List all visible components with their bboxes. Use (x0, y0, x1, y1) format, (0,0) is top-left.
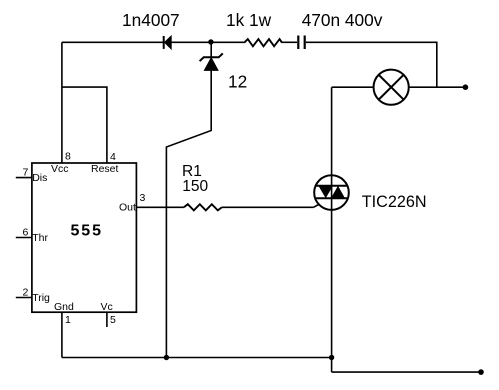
pin number 4 (110, 151, 116, 163)
label 470n 400v (302, 10, 383, 30)
pin number 8 (65, 151, 71, 163)
IC U1 555 body (32, 163, 136, 312)
wire ground rail (62, 357, 332, 359)
svg-text:Out: Out (119, 202, 136, 214)
label 12 (228, 71, 247, 91)
wire lamp right lead to AC terminal (409, 86, 466, 88)
pin label Reset (91, 163, 119, 175)
wire top rail left segment (62, 41, 244, 43)
svg-text:3: 3 (140, 192, 146, 204)
svg-text:Gnd: Gnd (54, 301, 74, 313)
pin label Trig (32, 292, 50, 304)
wire lamp left lead to triac column (332, 86, 374, 88)
pin number 5 (110, 314, 116, 326)
wire R1 to triac gate (222, 206, 314, 208)
svg-text:150: 150 (182, 178, 208, 195)
wire zener bottom lead down, diagonal and vertical to ground rail (166, 70, 211, 357)
svg-text:Thr: Thr (32, 232, 48, 244)
label 150 (182, 178, 208, 195)
svg-text:Vcc: Vcc (51, 163, 69, 175)
label R1 (182, 163, 202, 180)
wire triac main vertical (331, 87, 333, 372)
triac U2 TIC226N (314, 175, 349, 210)
node junction dot at diode/zener tap (208, 39, 213, 44)
pin 5 Vc stub (106, 312, 108, 327)
svg-text:TIC226N: TIC226N (362, 193, 427, 211)
pin 2 Trig stub (16, 297, 32, 299)
wire top rail right segment and drop to lamp line (306, 42, 437, 87)
label 1n4007 (122, 10, 180, 30)
wire triac gate (314, 205, 319, 208)
node junction dot triac column to ground rail (329, 355, 334, 360)
wire between resistor and capacitor (282, 41, 297, 43)
pin label Dis (32, 172, 47, 184)
pin label Gnd (54, 301, 74, 313)
wire zener top lead (210, 42, 212, 57)
svg-text:470n 400v: 470n 400v (302, 10, 383, 30)
pin number 6 (23, 227, 29, 239)
label 555 (71, 222, 103, 239)
wire Reset branch from Vcc line to pin 4 (62, 87, 107, 163)
svg-text:1n4007: 1n4007 (122, 10, 180, 30)
capacitor 470n 400v (298, 36, 304, 50)
terminal dot bottom right (478, 369, 484, 375)
svg-text:7: 7 (23, 167, 29, 179)
resistor R1 150 (184, 204, 222, 210)
pin 6 Thr stub (16, 237, 32, 239)
node junction dot zener column to ground rail (164, 355, 169, 360)
zener diode 12V (200, 53, 223, 70)
svg-text:Trig: Trig (32, 292, 50, 304)
svg-text:2: 2 (23, 287, 29, 299)
pin label Thr (32, 232, 48, 244)
label 1k 1w (226, 10, 272, 30)
pin number 3 (140, 192, 146, 204)
resistor 1k 1w (244, 39, 282, 46)
pin label Vc (101, 301, 113, 313)
svg-text:5: 5 (110, 314, 116, 326)
pin 7 Dis stub (16, 177, 32, 179)
terminal dot top right (463, 84, 469, 90)
svg-text:12: 12 (228, 71, 247, 91)
pin label Vcc (51, 163, 69, 175)
pin number 2 (23, 287, 29, 299)
svg-text:Dis: Dis (32, 172, 47, 184)
svg-text:1: 1 (65, 314, 71, 326)
svg-text:555: 555 (71, 222, 103, 239)
svg-text:Vc: Vc (101, 301, 113, 313)
pin number 7 (23, 167, 29, 179)
pin 1 Gnd wire down to ground rail (61, 312, 63, 357)
label TIC226N (362, 193, 427, 211)
svg-text:6: 6 (23, 227, 29, 239)
diode D1 1n4007 (164, 36, 172, 49)
lamp (374, 70, 409, 105)
wire Vcc vertical from top rail to pin 8 (61, 42, 63, 163)
svg-text:1k 1w: 1k 1w (226, 10, 272, 30)
pin number 1 (65, 314, 71, 326)
pin label Out (119, 202, 136, 214)
svg-text:Reset: Reset (91, 163, 119, 175)
wire bottom right to AC terminal (332, 371, 481, 373)
wire Out pin 3 to R1 (136, 206, 184, 208)
svg-text:4: 4 (110, 151, 116, 163)
svg-text:8: 8 (65, 151, 71, 163)
